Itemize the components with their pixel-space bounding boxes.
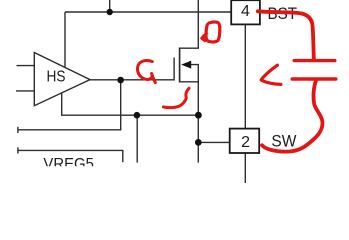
- svg-text:4: 4: [241, 3, 250, 20]
- svg-text:HS: HS: [47, 68, 66, 85]
- svg-text:SW: SW: [271, 132, 296, 151]
- svg-text:2: 2: [241, 134, 250, 151]
